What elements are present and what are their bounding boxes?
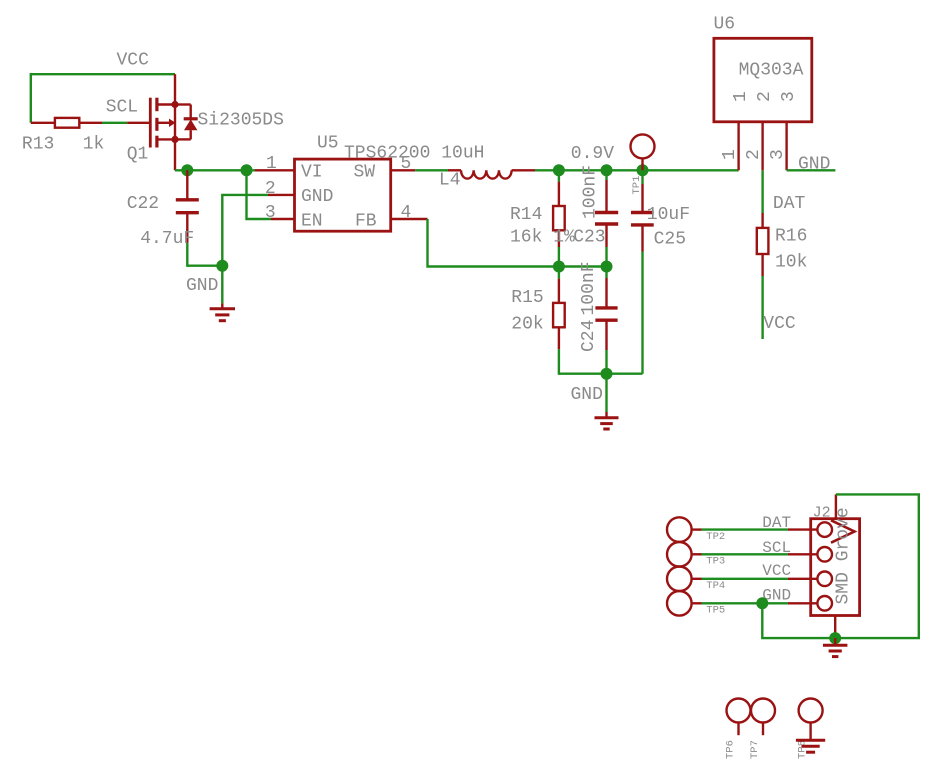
svg-text:C25: C25 — [654, 230, 686, 250]
pin 3 U6 — [785, 122, 787, 171]
node junction TP1 — [637, 164, 649, 176]
svg-text:GND: GND — [186, 276, 218, 296]
node junction C23 — [601, 164, 613, 176]
svg-text:R13: R13 — [22, 135, 54, 155]
wire R14 top — [558, 170, 560, 181]
wire FB net — [428, 219, 607, 267]
svg-text:100nF: 100nF — [579, 261, 599, 315]
test point TP7 — [751, 699, 775, 736]
node junction divider gnd — [601, 368, 613, 380]
svg-text:3: 3 — [265, 203, 276, 223]
svg-text:TP1: TP1 — [631, 176, 643, 195]
resistor R14 — [553, 182, 565, 247]
svg-text:L4: L4 — [439, 171, 461, 191]
svg-text:FB: FB — [355, 212, 377, 232]
wire gnd branch down — [221, 266, 223, 304]
resistor R15 — [553, 279, 565, 350]
node junction gnd branch — [216, 260, 228, 272]
svg-text:VCC: VCC — [762, 562, 791, 580]
node junction GND row — [756, 597, 768, 609]
node junction R14 — [553, 164, 565, 176]
wire SCL segment — [102, 122, 127, 124]
wire main rail left — [175, 169, 255, 171]
capacitor C22 — [176, 170, 199, 243]
svg-text:TP8: TP8 — [797, 740, 809, 759]
wire C25 bottom — [641, 252, 643, 374]
svg-text:MQ303A: MQ303A — [739, 61, 804, 81]
svg-text:SMD Grove: SMD Grove — [834, 507, 854, 604]
svg-text:R15: R15 — [511, 288, 543, 308]
pin bottom J2 — [834, 616, 836, 639]
node junction FB R14 — [553, 261, 565, 273]
svg-text:100nF: 100nF — [581, 165, 601, 219]
wire EN branch — [247, 170, 272, 219]
test point TP6 — [727, 699, 751, 736]
resistor R16 — [757, 213, 769, 276]
pin 4 FB — [391, 218, 428, 220]
wire C25 top — [641, 170, 643, 184]
wire C23 top — [605, 170, 607, 180]
svg-text:VI: VI — [301, 163, 323, 183]
pin 5 SW — [391, 169, 415, 171]
ground symbol divider — [595, 412, 619, 429]
svg-text:3: 3 — [779, 91, 799, 102]
wire C22 to gnd — [187, 243, 222, 266]
pin 1 VI — [255, 169, 295, 171]
svg-text:5: 5 — [401, 154, 412, 174]
pin 1 U6 — [737, 122, 739, 171]
svg-text:GND: GND — [571, 385, 603, 405]
svg-text:SCL: SCL — [106, 98, 138, 118]
svg-text:VCC: VCC — [763, 314, 796, 334]
svg-text:J2: J2 — [813, 505, 831, 522]
svg-text:1: 1 — [731, 91, 751, 102]
svg-text:EN: EN — [301, 212, 323, 232]
svg-text:0.9V: 0.9V — [571, 144, 614, 164]
ground symbol J2 — [823, 638, 847, 657]
node junction J2 gnd — [829, 632, 841, 644]
pin 3 EN — [271, 218, 295, 220]
svg-text:2: 2 — [265, 179, 276, 199]
svg-text:GND: GND — [798, 155, 830, 175]
wire R14 bottom — [558, 247, 560, 267]
svg-text:10uF: 10uF — [647, 205, 690, 225]
svg-text:SCL: SCL — [762, 539, 791, 557]
svg-text:2: 2 — [744, 149, 764, 160]
capacitor C25 — [631, 184, 654, 252]
pin top J2 — [835, 494, 837, 518]
node junction FB C24 — [601, 261, 613, 273]
IC U6 MQ303A — [714, 38, 812, 122]
test point TP2 — [667, 517, 702, 542]
capacitor C24 — [595, 278, 617, 350]
ground symbol left — [210, 303, 235, 320]
op-amp U5 TPS62200 — [295, 159, 391, 231]
wire DAT row — [702, 528, 788, 530]
svg-text:TP4: TP4 — [706, 580, 725, 592]
pad 1 J2 — [788, 522, 832, 537]
transistor Q1 — [127, 74, 198, 170]
wire C24 top — [605, 267, 607, 279]
svg-text:1: 1 — [720, 149, 740, 160]
svg-text:TPS62200 10uH: TPS62200 10uH — [344, 144, 484, 164]
wire VCC row — [702, 578, 788, 580]
pad 4 J2 — [788, 596, 832, 611]
inductor L4 — [448, 170, 535, 178]
node junction C22 — [181, 164, 193, 176]
svg-text:16k 1%: 16k 1% — [510, 228, 575, 248]
svg-text:Si2305DS: Si2305DS — [198, 111, 284, 131]
svg-text:SW: SW — [354, 163, 376, 183]
capacitor C23 — [595, 180, 618, 247]
svg-text:GND: GND — [301, 187, 333, 207]
svg-text:C24: C24 — [579, 320, 599, 352]
svg-text:2: 2 — [755, 91, 775, 102]
svg-text:TP2: TP2 — [706, 531, 725, 543]
wire output rail — [535, 169, 739, 171]
connector J2 — [811, 519, 860, 616]
pin 2 U6 — [761, 122, 763, 171]
svg-text:1: 1 — [266, 154, 277, 174]
svg-text:DAT: DAT — [762, 514, 791, 532]
test point TP8 — [799, 699, 823, 741]
svg-text:C23: C23 — [573, 228, 605, 248]
svg-text:R14: R14 — [510, 205, 542, 225]
test point TP4 — [667, 567, 702, 592]
svg-text:TP6: TP6 — [725, 740, 737, 759]
wire GND net U6 — [787, 169, 836, 171]
svg-text:TP3: TP3 — [706, 556, 725, 568]
test point TP3 — [667, 542, 702, 567]
wire C24 bottom — [605, 350, 607, 374]
svg-text:TP5: TP5 — [706, 604, 725, 616]
wire GND loop — [762, 494, 919, 638]
svg-text:TP7: TP7 — [749, 740, 761, 759]
wire VCC net bottom — [761, 276, 763, 339]
svg-text:C22: C22 — [127, 194, 159, 214]
chevron marker J2 — [831, 520, 855, 542]
svg-text:10k: 10k — [775, 253, 807, 273]
svg-text:U5: U5 — [317, 134, 339, 154]
svg-text:VCC: VCC — [117, 51, 150, 71]
wire SW to L4 — [415, 169, 448, 171]
svg-text:3: 3 — [768, 149, 788, 160]
ground symbol TP8 — [796, 740, 825, 752]
test point TP5 — [667, 591, 702, 616]
wire R15 bottom — [559, 349, 643, 373]
wire C23 bottom — [605, 247, 607, 267]
svg-text:U6: U6 — [714, 15, 736, 35]
svg-text:Q1: Q1 — [127, 145, 149, 165]
svg-text:1k: 1k — [83, 135, 105, 155]
wire DAT net — [761, 170, 763, 213]
svg-text:DAT: DAT — [773, 194, 806, 214]
wire gnd branch up to U5 GND pin — [222, 195, 268, 266]
pad 3 J2 — [788, 572, 832, 587]
resistor R13 — [31, 118, 102, 128]
wire divider gnd rail — [605, 374, 607, 412]
node junction EN branch — [241, 164, 253, 176]
svg-text:20k: 20k — [511, 315, 543, 335]
wire SCL row — [702, 553, 788, 555]
pad 2 J2 — [788, 547, 832, 562]
svg-text:4: 4 — [401, 203, 412, 223]
svg-text:R16: R16 — [775, 227, 807, 247]
wire R15 top — [558, 267, 560, 279]
pin 2 GND — [268, 194, 295, 196]
test point TP1 — [631, 134, 655, 170]
wire GND row — [702, 602, 788, 604]
wire VCC loop — [31, 74, 175, 123]
